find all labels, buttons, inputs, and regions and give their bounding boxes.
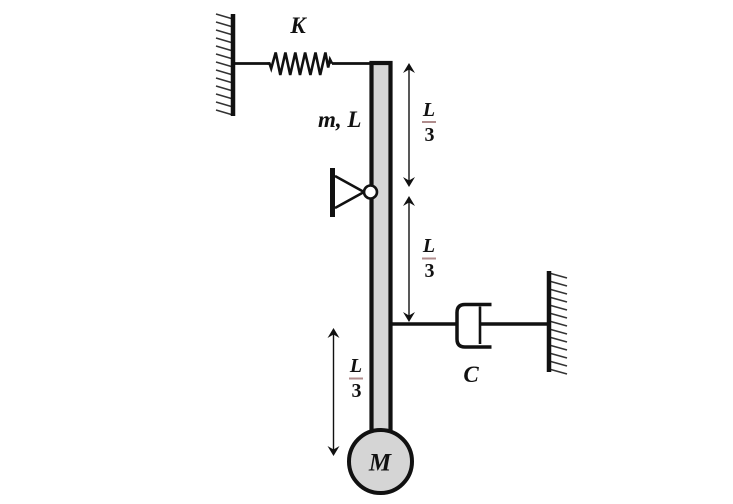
spring K wire to rod — [332, 62, 372, 65]
rod m,L — [372, 63, 391, 435]
spring K wire from wall — [233, 62, 270, 65]
pivot triangle — [335, 176, 364, 208]
damper piston rod to wall — [480, 322, 549, 326]
damper cylinder — [457, 305, 492, 348]
svg-text:L: L — [422, 99, 435, 121]
dimension line lower-left L/3 — [328, 328, 340, 456]
mass M circle — [349, 430, 412, 493]
dimension line upper L/3 — [403, 63, 415, 187]
label L/3 middle — [422, 235, 436, 282]
svg-text:L: L — [422, 235, 435, 257]
svg-text:m, L: m, L — [318, 107, 361, 132]
dimension line middle L/3 — [403, 196, 415, 322]
damper piston — [479, 307, 482, 345]
right wall — [547, 271, 552, 372]
svg-text:K: K — [289, 13, 307, 38]
label L/3 upper — [422, 99, 436, 146]
left wall hatching — [216, 14, 233, 115]
svg-text:M: M — [368, 450, 392, 477]
svg-text:L: L — [349, 355, 362, 377]
svg-text:3: 3 — [352, 380, 362, 402]
svg-text:C: C — [463, 362, 479, 387]
svg-text:3: 3 — [425, 260, 435, 282]
svg-text:3: 3 — [425, 124, 435, 146]
left wall — [231, 14, 236, 116]
pivot support base — [330, 168, 335, 217]
damper link from rod — [390, 322, 458, 326]
right wall hatching — [549, 273, 567, 374]
spring K coils — [268, 53, 333, 76]
label L/3 lower-left — [349, 355, 363, 402]
pivot pin circle — [364, 186, 377, 199]
